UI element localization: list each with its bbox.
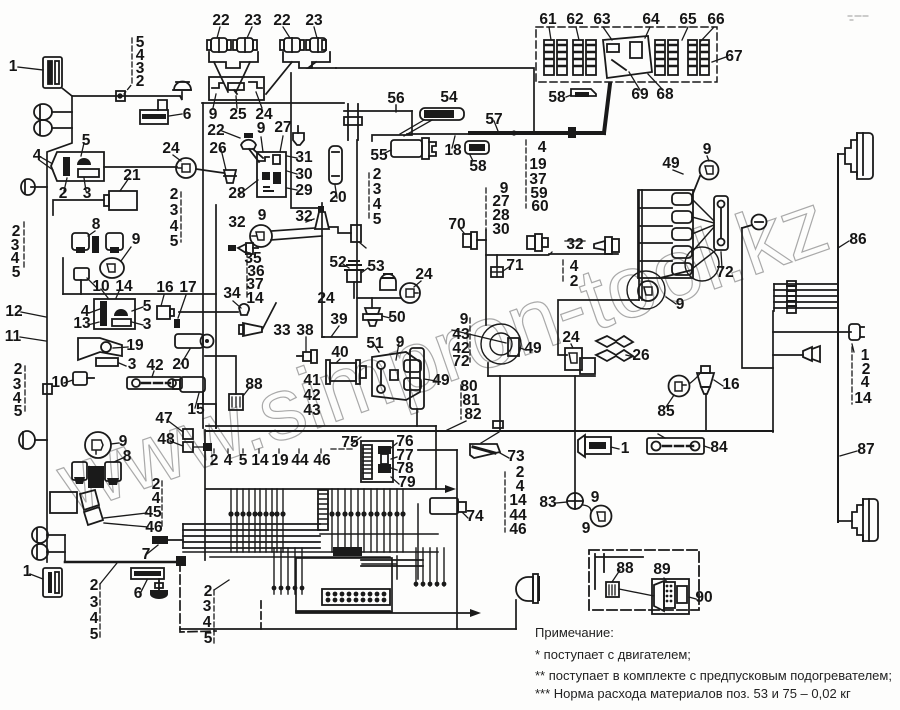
svg-text:9: 9 [132, 231, 141, 248]
svg-text:43: 43 [303, 402, 321, 419]
leader 82 [447, 421, 466, 430]
fuse 58a [566, 89, 596, 97]
cable 20b [175, 334, 214, 364]
bracket 1-2-4-14 right [851, 347, 853, 404]
plug left (x=25,y=440) [19, 431, 47, 449]
svg-text:5: 5 [14, 403, 23, 420]
bracket 2-3-4-5 bottom-center [213, 590, 215, 644]
svg-text:32: 32 [295, 208, 312, 225]
wire 56 bracket [344, 110, 412, 112]
connector block 1 top-left [18, 57, 62, 88]
wire 32 cone to 49 [329, 227, 351, 233]
wire vertical x=261 [260, 601, 262, 629]
pull cable 20 [329, 146, 342, 198]
horn small right [803, 346, 820, 362]
svg-text:70: 70 [448, 216, 465, 233]
svg-text:55: 55 [370, 147, 388, 164]
svg-text:32: 32 [566, 236, 583, 253]
svg-text:42: 42 [146, 357, 163, 374]
leaders 12 11 [20, 312, 46, 341]
lamp socket 24 circle left [173, 155, 196, 178]
plug 1b [578, 435, 619, 457]
svg-text:25: 25 [229, 106, 247, 123]
svg-text:11: 11 [5, 328, 22, 345]
wire left trunk drop [47, 96, 72, 562]
lamp 9e [583, 505, 612, 527]
svg-text:8: 8 [92, 216, 101, 233]
svg-text:74: 74 [466, 508, 484, 525]
wire top lamps V right [266, 62, 292, 94]
wire lamp stems top-left [52, 111, 72, 113]
resistor 21 [104, 178, 137, 210]
svg-text:26: 26 [209, 140, 227, 157]
plug pair bottom-left [32, 527, 48, 560]
leader 39 [331, 326, 339, 337]
wire top lamps V left [214, 62, 228, 92]
wire [773, 284, 775, 311]
svg-text:86: 86 [849, 231, 867, 248]
fuse box leaders [549, 27, 726, 90]
dots right group [414, 582, 447, 587]
svg-text:9: 9 [591, 489, 600, 506]
bracket 2-3-4-5 (x=369) [368, 173, 370, 220]
wire far right vertical [837, 154, 839, 522]
wire [183, 547, 320, 549]
wire [774, 289, 838, 291]
fuse box dashed outline [536, 27, 717, 82]
label row tick line [331, 448, 355, 450]
bracket 2-3-4-5 left upper [23, 222, 25, 267]
wire lower comb rails [361, 559, 423, 561]
wire headlamp B lead [838, 520, 852, 522]
gauges 8 pair [72, 231, 123, 253]
wire x=500 drop to bus [499, 376, 501, 431]
svg-text:20: 20 [329, 189, 346, 206]
svg-text:4: 4 [538, 139, 547, 156]
leader 18 [452, 136, 455, 148]
wire 57 lead-in [407, 133, 470, 135]
svg-text:* поступает с двигателем;: * поступает с двигателем; [535, 647, 691, 662]
svg-text:2: 2 [136, 73, 145, 90]
svg-text:22: 22 [273, 12, 290, 29]
svg-text:1: 1 [621, 440, 630, 457]
wire horn lead [773, 354, 803, 356]
wire right lamp to bus [308, 62, 336, 68]
headlamp B [852, 499, 878, 541]
svg-text:85: 85 [657, 403, 675, 420]
wire y=300 to 24c [558, 300, 639, 355]
switch 16a [157, 295, 174, 319]
svg-text:3: 3 [170, 202, 179, 219]
arrow head [445, 485, 456, 493]
connector sq on cable [568, 127, 576, 138]
svg-text:64: 64 [642, 11, 660, 28]
bracket 2-4-14-44-46 [504, 472, 506, 532]
svg-text:49: 49 [662, 155, 680, 172]
wire [182, 524, 184, 548]
wire 51 pump drop [416, 409, 418, 426]
bracket 5-4-3-2 top-left [124, 38, 132, 94]
clamp 56 [344, 104, 396, 140]
wire [774, 295, 838, 297]
festoon lamp 22b [280, 27, 304, 52]
svg-text:9: 9 [676, 296, 685, 313]
wire 74 rail [418, 449, 457, 451]
junction sq on trunk [43, 384, 52, 394]
lamp 9f [100, 247, 131, 278]
svg-text:8: 8 [123, 448, 132, 465]
arrow head [470, 609, 481, 617]
watermark www.simpron-tool.kz [45, 172, 840, 532]
horn 19 [78, 338, 128, 366]
svg-text:23: 23 [244, 12, 262, 29]
svg-text:26: 26 [632, 347, 650, 364]
items 47/48 [167, 420, 212, 452]
svg-text:58: 58 [548, 89, 566, 106]
leader 2 bottom-left to wire [100, 563, 117, 584]
svg-text:27: 27 [274, 119, 291, 136]
comb lower A [274, 548, 302, 594]
svg-text:87: 87 [857, 441, 874, 458]
wire spark line y=298 [357, 297, 401, 299]
svg-text:32: 32 [228, 214, 245, 231]
comb group 2 [332, 489, 403, 552]
flag 73 [470, 432, 509, 458]
flexible shaft 54 [400, 108, 464, 136]
svg-text:1: 1 [9, 58, 18, 75]
svg-text:7: 7 [142, 546, 151, 563]
wire fog lamp drop [515, 600, 517, 629]
svg-text:65: 65 [679, 11, 697, 28]
svg-text:19: 19 [126, 337, 144, 354]
leader 57 [494, 121, 498, 131]
svg-text:2: 2 [90, 577, 99, 594]
svg-text:29: 29 [295, 182, 313, 199]
wire 24a to funnel 26 [196, 169, 224, 173]
connector dots row 1 [228, 511, 285, 516]
svg-text:72: 72 [452, 353, 469, 370]
svg-text:2: 2 [570, 273, 579, 290]
fuse block 65 [655, 40, 678, 75]
comb right group [416, 548, 444, 586]
wire left box edge y=294 [63, 293, 216, 295]
cable 57 riser to fuse box [604, 84, 610, 133]
connector bar B [322, 589, 390, 605]
wire 49a circle drop [487, 363, 489, 376]
svg-text:83: 83 [539, 494, 557, 511]
ignition coils 26b [580, 336, 634, 374]
big circle 49a [452, 324, 526, 364]
wire 83 drop [574, 431, 576, 493]
svg-text:46: 46 [509, 521, 527, 538]
lamp 9b top right [673, 156, 719, 196]
svg-text:9: 9 [582, 520, 591, 537]
switch panel 9/25/24 [209, 77, 264, 108]
tiny corner marks [848, 16, 868, 20]
svg-text:90: 90 [695, 589, 712, 606]
lamp holder bracket right pair [283, 52, 330, 68]
label row ticks [214, 449, 321, 453]
wire circled9 to 32 plug [272, 228, 315, 231]
svg-text:4: 4 [224, 452, 233, 469]
svg-text:47: 47 [155, 410, 172, 427]
plug 85 [666, 372, 701, 407]
wire [47, 534, 65, 536]
wire 32 pair link [549, 253, 618, 255]
svg-text:84: 84 [710, 439, 728, 456]
leader 86 [838, 241, 849, 248]
connector 10b [64, 372, 94, 385]
wire y=311 to plug 34 [179, 311, 238, 313]
lamp socket 24b [400, 281, 421, 303]
wire [215, 205, 217, 428]
motor 15 [173, 377, 205, 408]
fuse block 66 [688, 40, 709, 75]
svg-text:3: 3 [203, 598, 212, 615]
wire main bus y=431 [206, 430, 773, 432]
wire 71 stem [496, 255, 498, 266]
wire 52 stem [353, 282, 355, 298]
plug 32 pair [527, 234, 552, 255]
svg-text:44: 44 [291, 452, 309, 469]
wire comb rails extra [183, 534, 438, 557]
wire [774, 301, 838, 303]
connector bar dark [333, 547, 362, 556]
bracket 9-43-42-72 [469, 318, 471, 362]
plug 89/90 [652, 578, 696, 614]
festoon lamp 22 [207, 27, 231, 52]
wire comb left rails [183, 523, 320, 525]
plug 34 [233, 301, 249, 315]
svg-text:6: 6 [183, 106, 192, 123]
wire [361, 565, 423, 567]
svg-text:62: 62 [566, 11, 583, 28]
plug left (x=28,y=186) [21, 179, 35, 195]
ignition leaders [221, 131, 297, 194]
svg-text:24: 24 [317, 290, 335, 307]
wire 24a link [104, 166, 177, 168]
pilot lamp 9 circled [250, 225, 272, 247]
headlamp A [845, 133, 873, 179]
wire under lamp panel [202, 102, 344, 104]
svg-text:4: 4 [861, 374, 870, 391]
svg-text:49: 49 [524, 340, 542, 357]
svg-text:58: 58 [469, 158, 487, 175]
festoon lamp 23 [233, 27, 257, 52]
svg-text:3: 3 [128, 356, 137, 373]
wire [64, 535, 66, 562]
fuse 58b [465, 141, 489, 161]
svg-text:2: 2 [170, 186, 179, 203]
wire right bus lines [774, 283, 838, 285]
svg-text:16: 16 [722, 376, 740, 393]
connector on wire y=96 [116, 91, 125, 101]
wire lamp-9 stem [180, 92, 182, 100]
svg-text:3: 3 [90, 594, 99, 611]
junction box 88/89/90 [589, 550, 699, 610]
plug 38 [297, 337, 317, 363]
sensor 32 cone [306, 206, 329, 229]
svg-text:66: 66 [707, 11, 725, 28]
svg-text:5: 5 [239, 452, 248, 469]
bracket 2-3-4-5 (x=181) [180, 192, 182, 242]
plug 31 [293, 126, 304, 145]
svg-text:57: 57 [485, 111, 502, 128]
svg-text:22: 22 [212, 12, 229, 29]
svg-text:5: 5 [204, 630, 213, 647]
svg-text:48: 48 [157, 431, 175, 448]
svg-text:68: 68 [656, 86, 674, 103]
wire [52, 127, 72, 129]
svg-text:89: 89 [653, 561, 671, 578]
spark plug connector 35 [228, 243, 258, 254]
jumper bar 72 [714, 196, 728, 268]
horn 6b [131, 568, 164, 594]
fuse block 62 [573, 40, 596, 75]
fuse 76/77/78 [378, 443, 399, 484]
lamp holder bracket left pair [209, 52, 258, 68]
fuel sender 14a box [88, 289, 143, 329]
svg-text:12: 12 [5, 303, 22, 320]
svg-text:54: 54 [440, 89, 458, 106]
svg-text:5: 5 [373, 211, 382, 228]
svg-text:67: 67 [725, 48, 742, 65]
funnel 26 [224, 170, 236, 183]
speedo cable 42 [127, 371, 182, 389]
wire [183, 541, 320, 543]
svg-text:5: 5 [170, 233, 179, 250]
bracket 80-81-82 [460, 385, 462, 419]
svg-text:30: 30 [295, 166, 312, 183]
washer pump tall [410, 348, 424, 409]
svg-text:60: 60 [531, 198, 548, 215]
box around cluster [50, 492, 77, 513]
wire branch to 50 [371, 298, 373, 308]
note text [535, 625, 892, 701]
relay 88a [229, 387, 250, 410]
svg-text:28: 28 [228, 185, 246, 202]
wire plug D lead [773, 331, 851, 333]
leader 2 bottom-center to wire [214, 580, 229, 590]
svg-text:14: 14 [854, 390, 872, 407]
wire [47, 551, 65, 553]
lamp 9c circled bottom [627, 270, 692, 309]
svg-text:9: 9 [258, 207, 267, 224]
ignition switch box [257, 152, 286, 197]
horn button 22 dome [241, 133, 263, 162]
resistor 75 [352, 437, 393, 482]
comp 7 [147, 536, 168, 554]
svg-text:14: 14 [246, 290, 264, 307]
svg-text:61: 61 [539, 11, 557, 28]
svg-text:*** Норма расхода материалов п: *** Норма расхода материалов поз. 53 и 7… [535, 686, 851, 701]
wire ignition column [291, 73, 357, 337]
wire fuse box drop x=486 [485, 230, 487, 325]
horn 6 top-left [140, 100, 182, 124]
sensor 53b dome [380, 274, 396, 290]
svg-text:31: 31 [295, 149, 313, 166]
relay 55 [383, 138, 436, 159]
round plug x=759 [742, 215, 767, 230]
wire bottom long run [180, 628, 516, 630]
relay 74 [430, 498, 468, 518]
svg-text:9: 9 [257, 120, 266, 137]
bracket 9-27-28-30 [485, 188, 487, 230]
plug 32b [565, 237, 619, 254]
wire right riser x=742 [742, 228, 773, 368]
flasher 40 [326, 359, 366, 384]
svg-text:38: 38 [296, 322, 314, 339]
leader 87 [840, 451, 857, 456]
gauges pair 2 [72, 457, 125, 488]
wire x=457 drop [456, 450, 458, 629]
svg-text:71: 71 [506, 257, 524, 274]
relay 69/68 [603, 36, 652, 78]
fuse block 61 [544, 40, 567, 75]
svg-text:53: 53 [367, 258, 385, 275]
wire comb box left edge [204, 430, 206, 560]
wire right comb riser [362, 504, 418, 579]
wire box frame 2/3/5 area [53, 200, 104, 215]
svg-text:5: 5 [12, 264, 21, 281]
lamp 9g circled [85, 432, 119, 458]
svg-text:5: 5 [90, 626, 99, 643]
wire [62, 258, 64, 294]
connector 10a [74, 268, 96, 294]
bolt [150, 579, 168, 599]
hatched connector on bus [787, 281, 796, 313]
switch 83 [556, 493, 583, 509]
svg-text:24: 24 [162, 140, 180, 157]
svg-text:69: 69 [631, 86, 649, 103]
bracket 4-2 (x=563) [562, 260, 564, 282]
junction sq on bus [493, 421, 503, 428]
svg-text:19: 19 [271, 452, 289, 469]
junction at wire corner [176, 556, 186, 566]
wire top-left main feed [62, 88, 180, 96]
wire line y=611 [296, 610, 390, 612]
wire [372, 111, 412, 141]
plug 70 [459, 227, 486, 249]
wire 39 branch [322, 336, 324, 338]
svg-text:4: 4 [90, 610, 99, 627]
svg-text:30: 30 [492, 221, 509, 238]
comb group 1 [231, 489, 283, 552]
svg-text:6: 6 [134, 585, 143, 602]
bracket 35-36-37-14 [246, 252, 248, 300]
svg-text:82: 82 [464, 406, 481, 423]
wire plug lead left [31, 186, 47, 188]
wire arrow line y=613 [296, 612, 470, 614]
part 17a [174, 295, 186, 328]
pointers 45/46 [80, 490, 148, 527]
wire center-left tall double run [202, 103, 204, 428]
svg-text:2: 2 [210, 452, 219, 469]
svg-text:13: 13 [73, 315, 91, 332]
wire 15 link [203, 392, 216, 428]
wire [183, 529, 320, 531]
lamp 9 dome top-left [173, 82, 191, 91]
horn circle [685, 247, 719, 281]
bonding strap 84 [647, 434, 710, 454]
distributor block 72 [638, 190, 693, 278]
sensor 52/53 cap [343, 261, 368, 282]
wire [271, 236, 322, 240]
wire comp7 link [168, 539, 183, 541]
svg-text:88: 88 [616, 560, 634, 577]
wire [774, 307, 838, 309]
svg-text:51: 51 [366, 335, 384, 352]
